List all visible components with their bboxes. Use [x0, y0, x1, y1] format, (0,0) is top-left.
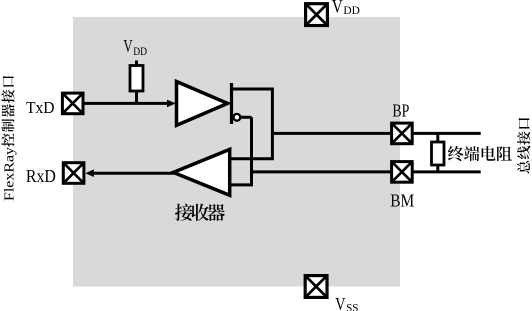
wire TxD pad to driver input [84, 102, 168, 105]
driver output bar [230, 83, 233, 124]
label right bus interface 总线接口 (rotated) [517, 118, 530, 174]
resistor pull-up body [130, 66, 143, 92]
svg-text:RxD: RxD [26, 166, 56, 186]
label receiver 接收器 [175, 204, 225, 221]
svg-text:BP: BP [392, 101, 409, 121]
arrowhead into RxD pad [85, 169, 93, 177]
wire termination resistor top lead [436, 133, 439, 143]
label left FlexRay controller interface (rotated) [1, 76, 17, 201]
svg-text:V: V [335, 294, 345, 311]
svg-text:DD: DD [133, 44, 147, 58]
inverting bubble [234, 114, 241, 121]
pad BP [392, 123, 413, 144]
wire receiver upper input stub [230, 157, 274, 160]
svg-text:BM: BM [390, 191, 414, 211]
pad BM [392, 162, 413, 183]
wire receiver output to RxD [93, 172, 174, 175]
label termination resistor 终端电阻 [448, 146, 512, 161]
wire BP line to pad [272, 132, 480, 135]
wire pull-up resistor top lead [135, 61, 138, 67]
svg-text:FlexRay: FlexRay [2, 147, 17, 201]
wire vertical BP feed [271, 88, 274, 159]
svg-text:V: V [123, 36, 132, 56]
resistor termination body [432, 142, 445, 165]
pad RxD [63, 163, 84, 184]
wire pull-up resistor bottom lead joining TxD line [135, 91, 138, 105]
transceiver chip body [73, 17, 400, 287]
pad VDD top [306, 4, 328, 26]
pad TxD [62, 93, 83, 114]
svg-text:TxD: TxD [26, 98, 55, 117]
driver buffer triangle [177, 82, 228, 126]
svg-text:V: V [332, 0, 344, 17]
wire bubble output to BM vertical [240, 116, 252, 119]
wire BM line to pad [252, 170, 481, 173]
svg-text:DD: DD [343, 3, 360, 17]
arrowhead into driver [167, 100, 176, 108]
wire receiver lower input stub [230, 183, 253, 186]
pad VSS bottom [305, 276, 327, 298]
svg-text:SS: SS [346, 300, 358, 311]
wire vertical BM feed [250, 117, 253, 185]
receiver triangle [173, 149, 229, 195]
wire driver non-inverting output branch [232, 88, 273, 91]
wire termination resistor bottom lead [436, 165, 439, 172]
